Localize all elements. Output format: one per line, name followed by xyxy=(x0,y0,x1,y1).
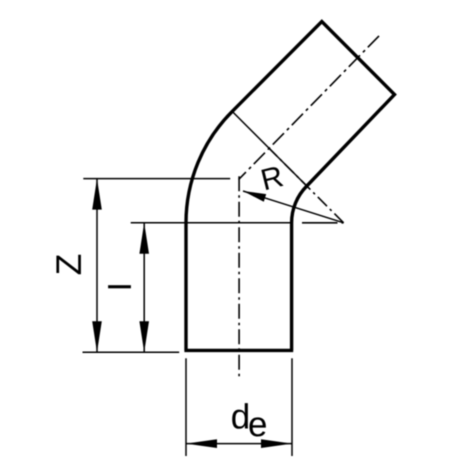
arrow d_e right xyxy=(261,439,292,448)
label e subscript (of d_e) xyxy=(249,417,265,436)
horizontal dash-dot to apex xyxy=(302,222,344,224)
label l (rotated lowercase l = bar) xyxy=(108,285,131,288)
extension line top (Z) xyxy=(83,178,230,180)
arrow d_e left xyxy=(186,439,217,448)
vertical centerline xyxy=(238,176,240,377)
bend miter line (thin) xyxy=(232,111,307,186)
radius line 45deg from apex xyxy=(270,149,344,223)
d_e extension line left xyxy=(185,358,187,456)
d_e dimension line xyxy=(186,443,292,445)
label R xyxy=(261,166,283,190)
pipe elbow body outline xyxy=(184,22,394,351)
arrow Z bottom xyxy=(92,321,102,352)
extension line middle (l) xyxy=(131,222,293,224)
angled centerline xyxy=(239,36,379,180)
dimension line Z xyxy=(96,179,98,353)
R arrow line xyxy=(243,191,344,223)
arrow l bottom xyxy=(139,321,149,352)
R arrowhead xyxy=(243,191,266,202)
arrow l top xyxy=(139,223,149,254)
d_e extension line right xyxy=(291,358,293,456)
arrow Z top xyxy=(92,179,102,210)
extension line bottom left xyxy=(83,351,180,353)
label d (of d_e) xyxy=(232,403,248,429)
label Z xyxy=(56,255,80,275)
dimension line l xyxy=(143,223,145,352)
